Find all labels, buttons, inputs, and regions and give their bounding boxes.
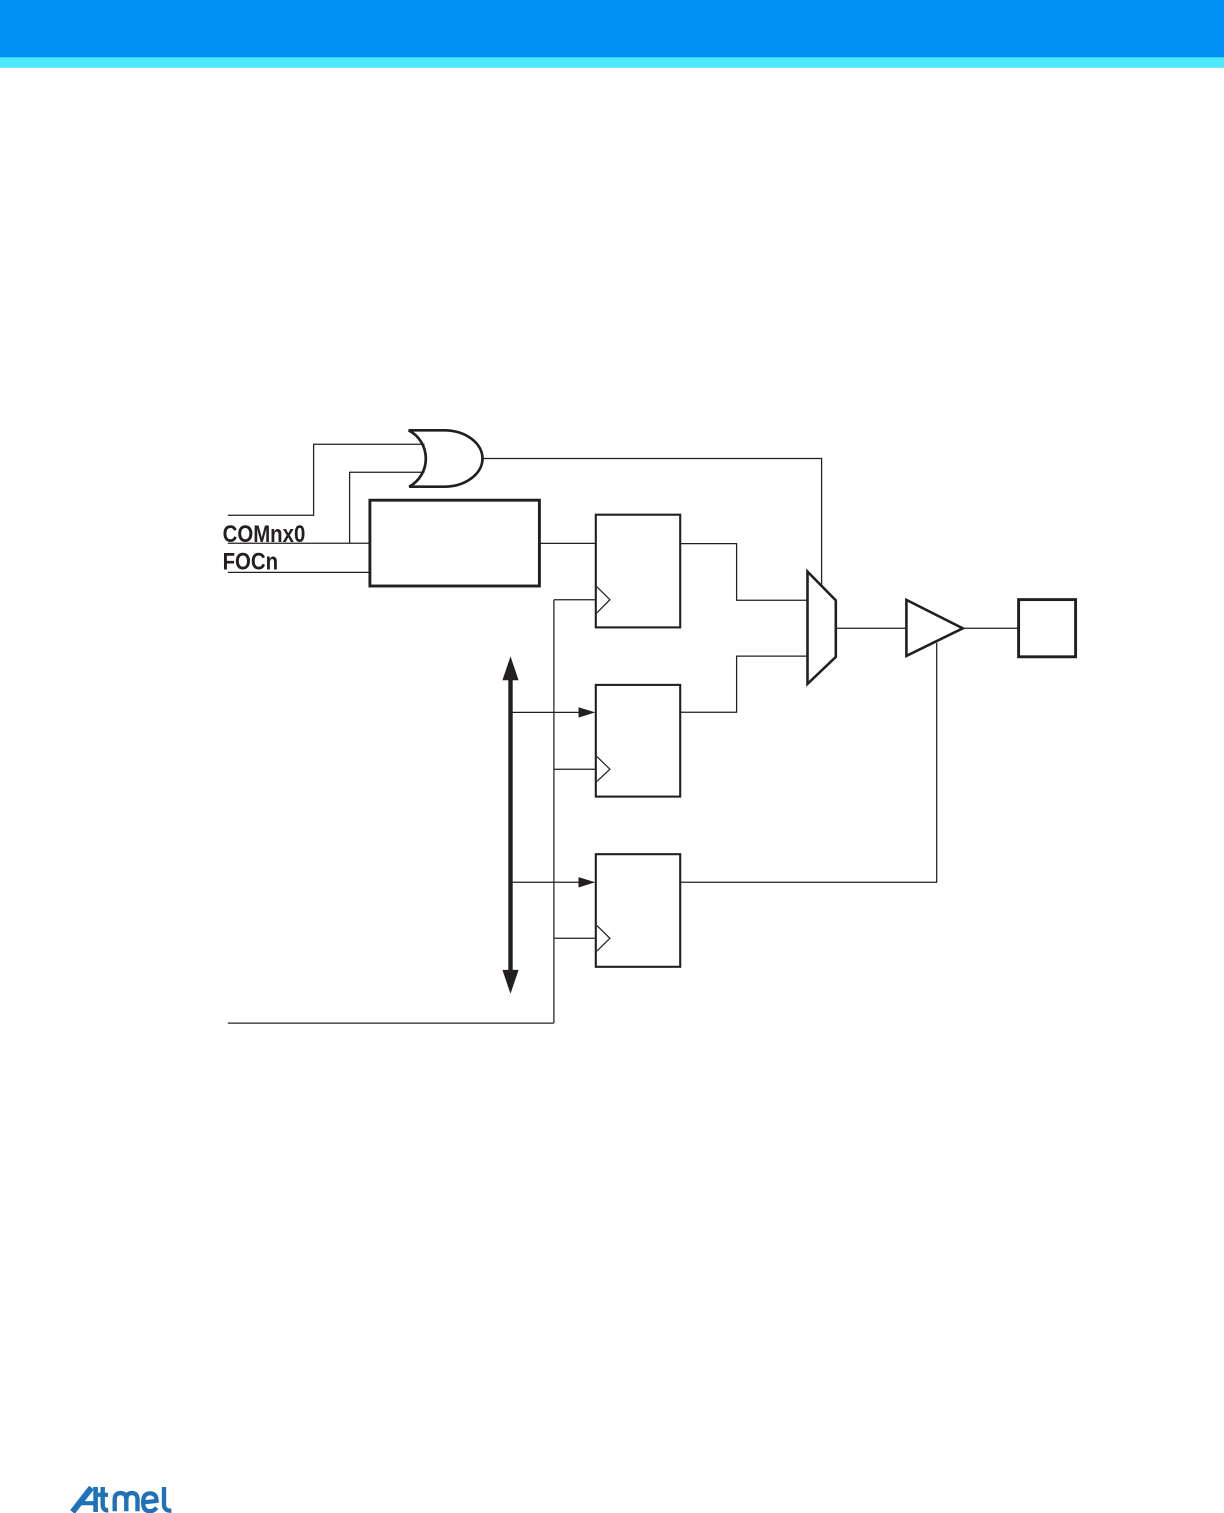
wire clk to OCnx flip-flop — [554, 599, 596, 601]
OCnx pin box — [1019, 600, 1076, 657]
or-gate — [409, 430, 483, 486]
clk I/O bottom wire — [228, 1022, 554, 1024]
data bus arrowhead top — [502, 656, 518, 680]
logo letter A — [73, 1488, 92, 1512]
header accent strip — [0, 57, 1224, 67]
wire waveform generator to OCnx flip-flop — [539, 542, 595, 544]
wire data bus to PORT flip-flop — [511, 711, 580, 713]
output buffer — [906, 600, 962, 656]
wire mux to buffer — [836, 627, 907, 629]
wire OCnx flip-flop to mux input 1 — [680, 544, 807, 601]
Atmel logo — [73, 1487, 172, 1512]
multiplexer — [808, 572, 836, 684]
data bus arrowhead bottom — [502, 970, 518, 994]
flip-flop DDR — [596, 854, 680, 967]
clk I/O vertical wire — [553, 600, 555, 1023]
flip-flop PORT — [596, 685, 680, 797]
svg-text:COMnx0: COMnx0 — [223, 521, 306, 548]
logo letter t — [103, 1487, 109, 1510]
logo letter l — [164, 1487, 171, 1511]
wire data bus to DDR flip-flop — [511, 881, 580, 883]
data bus arrow shaft — [508, 674, 512, 977]
wire clk to DDR flip-flop — [554, 937, 596, 939]
wire COMnx0 — [228, 542, 370, 544]
arrowhead data bus to PORT flip-flop — [579, 707, 596, 717]
clock wedge OCnx flip-flop — [597, 587, 610, 613]
wire clk to PORT flip-flop — [554, 768, 596, 770]
wire DDR flip-flop to buffer enable — [680, 643, 937, 882]
wire PORT flip-flop to mux input 2 — [680, 656, 807, 712]
wire COMnx1 stub to OR input 1 — [228, 444, 425, 515]
flip-flop OCnx — [596, 515, 680, 628]
wire FOCn — [228, 571, 370, 573]
wire COMnx0 tap to OR input 2 — [350, 472, 425, 543]
wire buffer to OCnx pin — [963, 627, 1019, 629]
waveform generator box — [370, 500, 540, 586]
wire OR output to mux select — [483, 459, 822, 586]
svg-text:FOCn: FOCn — [223, 548, 279, 575]
logo letter e — [143, 1493, 157, 1511]
arrowhead data bus to DDR flip-flop — [579, 877, 596, 887]
clock wedge PORT flip-flop — [597, 757, 610, 782]
header bar — [0, 0, 1224, 57]
clock wedge DDR flip-flop — [597, 926, 610, 952]
logo letter m — [115, 1493, 138, 1511]
